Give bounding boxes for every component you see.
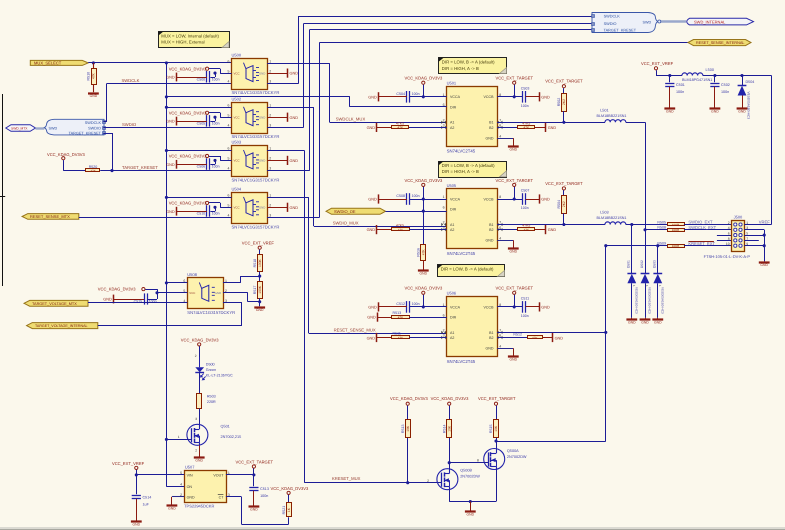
wire SWDCLK from harness to U500 bbox=[103, 121, 107, 123]
power VCC_KDAG_DV3V3 for R520 bbox=[62, 157, 65, 160]
resistor R521 bbox=[287, 503, 292, 517]
svg-text:4: 4 bbox=[499, 344, 501, 348]
svg-text:R514: R514 bbox=[442, 425, 446, 434]
wire connector pin7 bbox=[744, 240, 759, 242]
svg-text:RESET_SENSE_MUX: RESET_SENSE_MUX bbox=[334, 328, 376, 333]
wire KRESET_EXT to connector pin10 bbox=[684, 245, 732, 247]
resistor R508 100R bbox=[668, 229, 685, 232]
power VCC_KDAG_DV3V3 for R521 bbox=[287, 491, 290, 494]
svg-text:8: 8 bbox=[477, 459, 479, 463]
ground below R516 bbox=[418, 269, 429, 271]
load switch U507 TPS22945DCKR bbox=[185, 471, 227, 503]
ground on pin 2 of U503 bbox=[267, 160, 288, 162]
svg-text:SWDIO_MUX: SWDIO_MUX bbox=[333, 220, 359, 225]
wire SWDIO_OE to U505 DIR bbox=[386, 211, 447, 213]
svg-text:SN74LVC2T45: SN74LVC2T45 bbox=[447, 149, 476, 154]
power VCC_KDAG_DV3V3 for U504 bbox=[206, 201, 209, 204]
port TARGET_VOLTAGE_MTX bbox=[24, 300, 88, 306]
svg-text:B1: B1 bbox=[489, 121, 493, 125]
svg-text:SWDCLK_MUX: SWDCLK_MUX bbox=[336, 117, 366, 122]
wire TARGET_KRESET from harness to U503 bbox=[103, 133, 112, 135]
svg-text:VCC: VCC bbox=[234, 206, 240, 210]
svg-text:47K5: 47K5 bbox=[522, 121, 530, 125]
capacitor C502 100n bbox=[714, 76, 716, 83]
svg-text:GND: GND bbox=[510, 148, 518, 152]
wire U506 B1 to KRESET net bbox=[497, 332, 606, 334]
svg-text:C514: C514 bbox=[143, 495, 152, 499]
svg-text:47K: 47K bbox=[398, 126, 404, 130]
capacitor C500 100n bbox=[215, 73, 217, 77]
svg-text:100n: 100n bbox=[260, 494, 268, 498]
power VCC_EXT_TARGET for U506 VCCB bbox=[513, 291, 516, 294]
svg-text:C510: C510 bbox=[197, 212, 206, 216]
ground below C514 bbox=[131, 520, 142, 522]
svg-text:DIR = HIGH, A -> B: DIR = HIGH, A -> B bbox=[442, 169, 479, 174]
ground for C510 bbox=[176, 211, 207, 213]
port MUX_SELECT bbox=[30, 60, 88, 65]
wire MUX_SELECT branch to U502 pin6 bbox=[166, 107, 231, 109]
note DIR modes for U501 bbox=[439, 58, 507, 74]
svg-text:100n: 100n bbox=[721, 90, 729, 94]
svg-text:B2: B2 bbox=[489, 228, 493, 232]
diode D503 VESD05A1B0-HC3 bbox=[657, 246, 659, 273]
svg-text:5: 5 bbox=[746, 232, 748, 236]
svg-text:4: 4 bbox=[499, 237, 501, 241]
svg-text:VCC: VCC bbox=[234, 159, 240, 163]
svg-text:GND: GND bbox=[467, 513, 475, 517]
svg-text:U506: U506 bbox=[447, 291, 457, 296]
ground on pin 2 of U502 bbox=[267, 117, 288, 119]
svg-text:A1: A1 bbox=[450, 121, 454, 125]
diode D504 VESD05A1B0-HC3 bbox=[742, 76, 744, 86]
svg-text:100n: 100n bbox=[521, 314, 529, 318]
harness cable SWD_INTERNAL bbox=[661, 20, 687, 22]
svg-text:VCC_KDAG_DV3V3: VCC_KDAG_DV3V3 bbox=[431, 396, 469, 401]
svg-text:VCCB: VCCB bbox=[484, 197, 495, 201]
wire MUX_SELECT to U501 DIR bbox=[166, 96, 350, 98]
ground below C513 bbox=[249, 505, 260, 507]
svg-text:47K: 47K bbox=[398, 228, 404, 232]
wire connector pin9 bbox=[744, 245, 764, 247]
svg-text:D503: D503 bbox=[653, 260, 657, 268]
svg-text:GND: GND bbox=[368, 95, 377, 99]
svg-text:GND: GND bbox=[90, 94, 98, 98]
ground for R507 bbox=[545, 225, 547, 234]
resistor R517 divider bottom bbox=[258, 282, 263, 299]
wire SWDCLK_EXT to connector pin4 bbox=[684, 229, 732, 231]
level shifter U506 SN74LVC2T45 bbox=[447, 297, 498, 357]
resistor R506 on U505 A2 bbox=[377, 229, 392, 231]
capacitor C513 100n bbox=[253, 475, 255, 486]
svg-text:5: 5 bbox=[228, 204, 230, 208]
svg-text:100n: 100n bbox=[412, 194, 420, 198]
capacitor C512 100n bbox=[406, 301, 408, 313]
wire Q500B drain to gate Q500A bbox=[449, 463, 451, 469]
resistor R503 on U501 B2 bbox=[497, 127, 518, 129]
svg-text:GND: GND bbox=[195, 459, 203, 463]
ground below U507 bbox=[167, 504, 178, 506]
inductor L503 BLM18BB221SN1 bbox=[605, 222, 626, 225]
capacitor C506 100n bbox=[215, 160, 217, 164]
svg-text:GND: GND bbox=[641, 320, 649, 324]
svg-text:R520: R520 bbox=[89, 165, 98, 169]
svg-text:100n: 100n bbox=[212, 212, 220, 216]
ground for R500 bbox=[376, 123, 378, 132]
svg-text:47K5: 47K5 bbox=[396, 224, 404, 228]
svg-text:100n: 100n bbox=[212, 77, 220, 81]
svg-text:4: 4 bbox=[228, 79, 230, 83]
svg-text:2: 2 bbox=[269, 69, 271, 73]
wire TARGET_VOLTAGE_MTX to U508 pin4 bbox=[88, 302, 187, 304]
svg-text:100n: 100n bbox=[412, 92, 420, 96]
svg-text:C511: C511 bbox=[521, 297, 529, 301]
svg-text:GND: GND bbox=[654, 320, 662, 324]
resistor R510 bbox=[93, 63, 95, 68]
wire Q500 sources to ground bbox=[449, 490, 451, 502]
wire connector pin1 to VREF rail bbox=[744, 224, 771, 226]
svg-text:5: 5 bbox=[228, 69, 230, 73]
svg-text:GND: GND bbox=[486, 347, 494, 351]
capacitor C515 100n bbox=[152, 299, 157, 301]
svg-text:100R: 100R bbox=[672, 244, 680, 248]
power VCC_KDAG_DV3V3 for LED bbox=[198, 343, 201, 346]
power VCC_EXT_TARGET for U505 VCCB bbox=[513, 183, 516, 186]
svg-text:2: 2 bbox=[427, 479, 429, 483]
wire RESET_SENSE_MTX to U504 bbox=[79, 217, 232, 219]
svg-text:R502: R502 bbox=[557, 98, 561, 107]
capacitor C510 100n bbox=[215, 207, 217, 211]
svg-text:3: 3 bbox=[195, 417, 197, 421]
svg-text:R518: R518 bbox=[253, 259, 257, 268]
svg-text:MUX_SELECT: MUX_SELECT bbox=[34, 61, 62, 66]
svg-text:J500: J500 bbox=[734, 214, 743, 219]
svg-text:VCC_KDAG_DV3V3: VCC_KDAG_DV3V3 bbox=[271, 486, 309, 491]
svg-text:C501: C501 bbox=[676, 83, 685, 87]
resistor R511 on U506 A2 bbox=[377, 337, 392, 339]
connector J500 FTSH-105-01-L-DV-K-A-P bbox=[732, 221, 745, 252]
svg-text:GND: GND bbox=[548, 126, 557, 130]
svg-text:U505: U505 bbox=[447, 183, 457, 188]
svg-text:100R: 100R bbox=[672, 223, 680, 227]
power VCC_EXT_TARGET for R515 pull-up bbox=[494, 402, 497, 405]
svg-text:GND: GND bbox=[103, 298, 112, 302]
svg-text:DIR: DIR bbox=[450, 105, 457, 109]
wire divider tap to U508 pin1 bbox=[240, 276, 259, 278]
svg-text:GND: GND bbox=[166, 163, 175, 167]
svg-text:RESET_SENSE_MTX: RESET_SENSE_MTX bbox=[30, 214, 70, 219]
svg-text:GND: GND bbox=[486, 137, 494, 141]
svg-text:1: 1 bbox=[269, 104, 271, 108]
svg-text:2N7002DW: 2N7002DW bbox=[507, 455, 527, 459]
svg-text:VESD05A1B0-HC3: VESD05A1B0-HC3 bbox=[660, 287, 664, 314]
svg-text:TARGET_VOLTAGE_INTERNAL: TARGET_VOLTAGE_INTERNAL bbox=[35, 324, 88, 328]
svg-text:A2: A2 bbox=[450, 228, 454, 232]
wire VOUT to VCC_EXT_TARGET bbox=[226, 474, 254, 476]
svg-text:4: 4 bbox=[228, 214, 230, 218]
svg-text:C512: C512 bbox=[396, 302, 405, 306]
svg-text:47K: 47K bbox=[422, 249, 426, 256]
svg-text:GND: GND bbox=[290, 116, 299, 120]
power VCC_KDAG_DV3V3 for U503 bbox=[206, 154, 209, 157]
svg-text:VCC_EXT_VREF: VCC_EXT_VREF bbox=[641, 61, 674, 66]
svg-text:100n: 100n bbox=[676, 90, 684, 94]
svg-text:VCC: VCC bbox=[189, 291, 195, 295]
power VCC_KDAG_DV3V3 for R514 pull-up bbox=[448, 402, 451, 405]
svg-text:R512: R512 bbox=[513, 332, 522, 336]
capacitor C511 100n bbox=[522, 301, 524, 313]
svg-text:GND: GND bbox=[250, 508, 258, 512]
wire SWDIO_EXT to connector pin2 bbox=[684, 224, 732, 226]
svg-text:C505: C505 bbox=[197, 122, 206, 126]
ground below connector bbox=[759, 261, 770, 263]
port SWDIO_OE bbox=[326, 208, 386, 214]
svg-text:VCC_KDAG_DV3V3: VCC_KDAG_DV3V3 bbox=[98, 287, 136, 292]
svg-text:MUX = HIGH, External: MUX = HIGH, External bbox=[161, 40, 204, 45]
svg-text:BLM18BB221SN1: BLM18BB221SN1 bbox=[597, 216, 627, 220]
svg-text:R521: R521 bbox=[282, 506, 286, 515]
ground below C502 bbox=[710, 107, 721, 109]
svg-text:100n: 100n bbox=[212, 122, 220, 126]
svg-text:C502: C502 bbox=[721, 83, 730, 87]
resistor R504 pull-up on SWDIO B1 bbox=[562, 187, 565, 190]
resistor R514 pull-up bbox=[447, 420, 452, 438]
svg-text:2N7002DW: 2N7002DW bbox=[460, 475, 480, 479]
wire MUX_SELECT vertical distribution bbox=[166, 63, 168, 487]
svg-text:Green: Green bbox=[206, 368, 216, 372]
svg-text:L501: L501 bbox=[600, 109, 608, 113]
svg-text:GND: GND bbox=[215, 291, 221, 295]
svg-text:47K: 47K bbox=[398, 336, 404, 340]
svg-text:100n: 100n bbox=[212, 165, 220, 169]
power VCC_EXT_VREF for U507 bbox=[135, 466, 138, 469]
svg-text:SWDCLK: SWDCLK bbox=[604, 15, 621, 19]
note MUX modes bbox=[159, 32, 230, 48]
svg-text:VESD05A1B0-HC3: VESD05A1B0-HC3 bbox=[648, 287, 652, 314]
svg-text:GND: GND bbox=[368, 306, 377, 310]
svg-text:D504: D504 bbox=[746, 80, 755, 84]
svg-text:1: 1 bbox=[443, 195, 445, 199]
svg-text:TARGET_KRESET: TARGET_KRESET bbox=[122, 165, 158, 170]
svg-text:R509: R509 bbox=[657, 242, 666, 246]
wire Q500A drain node bbox=[496, 441, 498, 449]
svg-text:RESET_SENSE_INTERNAL: RESET_SENSE_INTERNAL bbox=[696, 41, 745, 45]
svg-text:47K: 47K bbox=[90, 169, 96, 173]
wire MUX_SELECT branch to U503 pin6 bbox=[166, 150, 231, 152]
wire MUX_SELECT to U507 ON bbox=[166, 486, 184, 488]
wire KRESET to R509 bbox=[606, 245, 667, 247]
mux IC U504 SN74LVC1G3157 bbox=[232, 193, 268, 224]
svg-text:2: 2 bbox=[269, 204, 271, 208]
resistor R515 pull-up bbox=[494, 420, 499, 438]
stub connector pin6 bbox=[717, 235, 732, 237]
svg-text:SN74LVC2T45: SN74LVC2T45 bbox=[447, 359, 476, 364]
svg-text:L503: L503 bbox=[600, 211, 608, 215]
wire VREF to connector pin1 bbox=[771, 76, 773, 225]
svg-text:SWD: SWD bbox=[49, 127, 58, 131]
svg-text:100R: 100R bbox=[672, 228, 680, 232]
svg-text:DIR = LOW, B -> A (default): DIR = LOW, B -> A (default) bbox=[442, 59, 495, 64]
svg-text:DIR = HIGH, A -> B: DIR = HIGH, A -> B bbox=[442, 66, 479, 71]
svg-text:10K: 10K bbox=[494, 425, 498, 432]
port TARGET_VOLTAGE_INTERNAL bbox=[27, 323, 98, 329]
note DIR modes for U505 bbox=[439, 162, 507, 178]
svg-text:8: 8 bbox=[499, 195, 501, 199]
svg-text:100n: 100n bbox=[412, 302, 420, 306]
capacitor C508 100n bbox=[406, 193, 408, 205]
power VCC_KDAG_DV3V3 for R513 pull-up bbox=[406, 402, 409, 405]
svg-text:C506: C506 bbox=[197, 165, 206, 169]
ground on pin 2 of U500 bbox=[267, 73, 288, 75]
harness port SWD_MTX bbox=[6, 125, 36, 132]
ground below D503 bbox=[657, 317, 659, 320]
svg-text:BLM18PG471SN1: BLM18PG471SN1 bbox=[682, 78, 712, 82]
svg-text:SN74LVC1G3157DCKYR: SN74LVC1G3157DCKYR bbox=[187, 310, 235, 315]
harness bundle SWD left bbox=[44, 119, 104, 135]
ground below Q501 bbox=[194, 456, 205, 458]
ground for C503 bbox=[526, 96, 540, 98]
wire VCC column and R516 pulldown on U505 bbox=[423, 199, 425, 244]
svg-text:6: 6 bbox=[728, 232, 730, 236]
ground below C501 bbox=[664, 107, 675, 109]
wire SWDCLK_EXT down to R508 bbox=[626, 122, 645, 124]
ground for C504 bbox=[379, 96, 407, 98]
capacitor C504 100n bbox=[406, 91, 408, 103]
svg-text:R517: R517 bbox=[253, 286, 257, 295]
resistor R505 100R bbox=[668, 223, 685, 226]
svg-text:DIR = LOW, B -> A (default): DIR = LOW, B -> A (default) bbox=[441, 266, 494, 271]
ground on U505 GND pin bbox=[497, 240, 513, 242]
svg-text:4: 4 bbox=[228, 167, 230, 171]
svg-text:U507: U507 bbox=[185, 465, 195, 470]
svg-text:VCC_EXT_TARGET: VCC_EXT_TARGET bbox=[545, 181, 583, 186]
wire U508 pin2 to ground node bbox=[223, 292, 248, 294]
svg-text:SWDCLK: SWDCLK bbox=[85, 121, 102, 125]
svg-text:2K2: 2K2 bbox=[562, 201, 566, 207]
svg-text:KL-LT-2135YGC: KL-LT-2135YGC bbox=[206, 373, 233, 377]
ground below D504 bbox=[737, 107, 748, 109]
ground for R506 bbox=[376, 225, 378, 234]
svg-text:GND: GND bbox=[367, 228, 376, 232]
wire KRESET vertical bbox=[605, 246, 607, 441]
svg-text:DIR: DIR bbox=[450, 208, 457, 212]
svg-text:R504: R504 bbox=[557, 200, 561, 209]
resistor R512 on U506 B2 bbox=[497, 337, 527, 339]
capacitor C507 100n bbox=[522, 193, 524, 205]
harness cable SWD_MTX bbox=[36, 127, 45, 129]
svg-text:KRESET_MUX: KRESET_MUX bbox=[332, 476, 361, 481]
svg-text:47K5: 47K5 bbox=[522, 224, 530, 228]
level shifter U501 SN74LVC2T45 bbox=[447, 87, 498, 147]
svg-text:VCC_EXT_TARGET: VCC_EXT_TARGET bbox=[545, 79, 583, 84]
ground below R510 bbox=[88, 92, 99, 94]
svg-text:GND: GND bbox=[259, 159, 265, 163]
svg-text:Q500B: Q500B bbox=[460, 469, 472, 473]
ground for C515 bbox=[114, 299, 145, 301]
svg-text:VOUT: VOUT bbox=[213, 473, 224, 477]
svg-text:VCC_EXT_TARGET: VCC_EXT_TARGET bbox=[496, 286, 534, 291]
svg-text:SWDIO_OE: SWDIO_OE bbox=[334, 209, 356, 214]
wire connector pin3 bbox=[744, 229, 764, 231]
svg-text:2: 2 bbox=[443, 221, 445, 225]
svg-text:SWDIO: SWDIO bbox=[122, 122, 137, 127]
svg-text:10: 10 bbox=[726, 242, 730, 246]
svg-text:ON: ON bbox=[187, 485, 193, 489]
svg-text:GND: GND bbox=[133, 523, 141, 527]
svg-text:VCC_KDAG_DV3V3: VCC_KDAG_DV3V3 bbox=[169, 154, 207, 159]
svg-text:SN74LVC2T45: SN74LVC2T45 bbox=[447, 251, 476, 256]
svg-text:VCC_KDAG_DV3V3: VCC_KDAG_DV3V3 bbox=[405, 76, 443, 81]
svg-text:2: 2 bbox=[195, 449, 197, 453]
svg-text:U503: U503 bbox=[232, 140, 242, 145]
svg-text:VCC_EXT_TARGET: VCC_EXT_TARGET bbox=[496, 178, 534, 183]
power VCC_KDAG_DV3V3 for U500 bbox=[206, 67, 209, 70]
svg-text:L500: L500 bbox=[706, 68, 714, 72]
svg-text:47K: 47K bbox=[524, 126, 530, 130]
bottom window edge bbox=[0, 527, 785, 530]
svg-text:B1: B1 bbox=[489, 223, 493, 227]
capacitor C505 100n bbox=[215, 117, 217, 121]
svg-text:R513: R513 bbox=[393, 311, 402, 315]
svg-text:Q501: Q501 bbox=[221, 425, 230, 429]
svg-text:GND: GND bbox=[368, 198, 377, 202]
svg-text:VCC_KDAG_DV3V3: VCC_KDAG_DV3V3 bbox=[169, 110, 207, 115]
wire SWDIO_MUX: U502 pin1 down to U505 A1 bbox=[267, 107, 314, 109]
svg-text:8: 8 bbox=[728, 237, 730, 241]
svg-text:FTSH-105-01-L-DV-K-A-P: FTSH-105-01-L-DV-K-A-P bbox=[704, 254, 751, 259]
svg-text:GND: GND bbox=[367, 337, 376, 341]
svg-text:GND: GND bbox=[166, 120, 175, 124]
power VCC_KDAG_DV3V3 for U508 bbox=[142, 288, 145, 291]
ground below D501 bbox=[631, 317, 633, 320]
svg-text:VCC_EXT_TARGET: VCC_EXT_TARGET bbox=[496, 76, 534, 81]
svg-text:R503: R503 bbox=[207, 394, 216, 398]
svg-text:GND: GND bbox=[548, 228, 557, 232]
svg-text:47K: 47K bbox=[92, 72, 96, 79]
ground for C500 bbox=[176, 77, 207, 79]
svg-text:VCC_EXT_VREF: VCC_EXT_VREF bbox=[242, 241, 275, 246]
svg-text:10K: 10K bbox=[447, 425, 451, 432]
svg-text:GND: GND bbox=[367, 126, 376, 130]
svg-text:GND: GND bbox=[166, 76, 175, 80]
svg-text:VIN: VIN bbox=[187, 473, 193, 477]
wire Q501 source to ground bbox=[199, 445, 201, 457]
svg-text:DIR: DIR bbox=[450, 316, 457, 320]
svg-text:GND: GND bbox=[541, 95, 550, 99]
svg-text:6: 6 bbox=[443, 205, 445, 209]
resistor R520 bbox=[86, 169, 100, 172]
svg-text:DIR = LOW, B -> A (default): DIR = LOW, B -> A (default) bbox=[442, 163, 495, 168]
inductor L500 BLM18PG471SN1 bbox=[682, 73, 703, 76]
wire RESET_SENSE_INTERNAL: U504 pin3 up to port bbox=[267, 217, 319, 219]
svg-text:SN74LVC1G3157DCKYR: SN74LVC1G3157DCKYR bbox=[232, 224, 280, 229]
svg-text:VESD05A1B0-HC3: VESD05A1B0-HC3 bbox=[634, 287, 638, 314]
svg-text:VCCA: VCCA bbox=[450, 95, 461, 99]
svg-text:GND: GND bbox=[541, 198, 550, 202]
svg-text:VCC_KDAG_DV3V3: VCC_KDAG_DV3V3 bbox=[405, 286, 443, 291]
resistor R503 LED series 220R bbox=[197, 394, 202, 409]
power VCC_KDAG_DV3V3 for U505 bbox=[422, 183, 425, 186]
resistor R502 pull-up on SWDCLK B1 bbox=[562, 85, 565, 88]
wire TARGET_VOLTAGE_INTERNAL to U508 pin3 bbox=[98, 325, 242, 327]
svg-text:VCCB: VCCB bbox=[484, 305, 495, 309]
ground for C506 bbox=[176, 164, 207, 166]
capacitor C503 100n bbox=[522, 91, 524, 103]
svg-text:GND: GND bbox=[666, 109, 674, 113]
transistor Q500A 2N7002DW bbox=[484, 449, 505, 470]
svg-text:VCC_EXT_VREF: VCC_EXT_VREF bbox=[112, 461, 145, 466]
svg-text:GND: GND bbox=[259, 206, 265, 210]
wire VIN bbox=[136, 474, 184, 476]
